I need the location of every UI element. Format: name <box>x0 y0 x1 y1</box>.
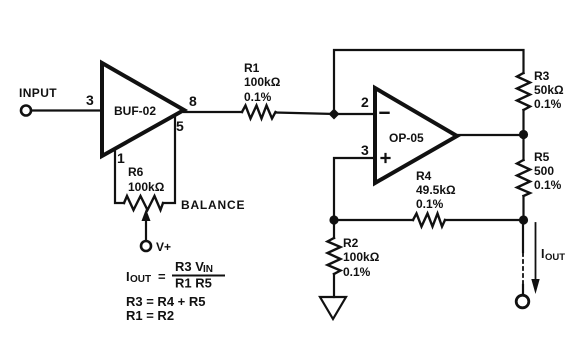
resistor R5 <box>517 150 562 196</box>
svg-text:I: I <box>541 247 544 261</box>
svg-text:0.1%: 0.1% <box>343 265 371 279</box>
svg-text:5: 5 <box>176 118 184 134</box>
BALANCE label <box>181 198 245 212</box>
op-amp U2 OP-05 <box>375 88 457 183</box>
svg-text:0.1%: 0.1% <box>416 197 444 211</box>
wire BUF-02 output to R1 <box>184 111 242 113</box>
svg-text:3: 3 <box>361 142 369 158</box>
wire pin 1 down to R6 left <box>115 150 124 203</box>
wire R4 to node C <box>445 219 524 221</box>
pin 8 label <box>189 93 197 109</box>
wire input to BUF-02 pin 3 <box>32 109 102 111</box>
svg-text:R1: R1 <box>244 61 260 75</box>
pin 3 label <box>361 142 369 158</box>
output terminal <box>516 295 529 308</box>
node A junction <box>329 109 340 120</box>
svg-text:100kΩ: 100kΩ <box>343 250 380 264</box>
wire node A to OP-05 pin 2 <box>334 113 374 115</box>
wire R2 to ground <box>333 274 335 297</box>
svg-text:2: 2 <box>361 94 369 110</box>
Iout current arrow <box>531 223 539 294</box>
wire node C to output terminal <box>522 220 524 295</box>
svg-text:R1 = R2: R1 = R2 <box>126 308 174 323</box>
formula R3 = R4 + R5 <box>126 294 206 309</box>
wire node B to R4 <box>334 219 413 221</box>
node B junction <box>329 215 338 224</box>
input terminal <box>19 86 57 116</box>
svg-text:R5: R5 <box>534 150 550 164</box>
svg-text:INPUT: INPUT <box>19 86 57 100</box>
svg-text:BUF-02: BUF-02 <box>114 104 156 118</box>
node C junction <box>519 215 528 224</box>
svg-text:0.1%: 0.1% <box>534 97 562 111</box>
svg-text:OUT: OUT <box>545 252 565 263</box>
svg-text:R3 V: R3 V <box>175 259 204 274</box>
formula R1 = R2 <box>126 308 174 323</box>
op-amp U1 BUF-02 <box>102 63 184 156</box>
formula Iout = R3 Vin / R1 R5 <box>126 259 224 291</box>
svg-text:100kΩ: 100kΩ <box>244 75 281 89</box>
wire R1 to node A <box>276 113 335 115</box>
svg-text:OUT: OUT <box>130 274 151 285</box>
resistor R6 potentiometer <box>124 165 165 210</box>
svg-text:IN: IN <box>203 264 213 275</box>
resistor R1 <box>242 61 281 119</box>
wire OP-05 pin 3 to node B <box>334 158 374 220</box>
wiper arrow of R6 <box>142 209 151 240</box>
svg-text:R3: R3 <box>534 69 550 83</box>
svg-text:8: 8 <box>189 93 197 109</box>
svg-text:1: 1 <box>117 150 125 166</box>
resistor R3 <box>517 69 564 111</box>
svg-text:V+: V+ <box>156 240 171 254</box>
svg-text:0.1%: 0.1% <box>534 178 562 192</box>
svg-text:R1 R5: R1 R5 <box>175 276 212 291</box>
svg-text:R2: R2 <box>343 236 359 250</box>
svg-text:OP-05: OP-05 <box>389 131 424 145</box>
pin 5 label <box>176 118 184 134</box>
svg-text:100kΩ: 100kΩ <box>128 180 165 194</box>
svg-text:49.5kΩ: 49.5kΩ <box>416 183 456 197</box>
resistor R4 <box>413 169 456 227</box>
V+ terminal <box>141 240 171 254</box>
svg-text:0.1%: 0.1% <box>244 90 272 104</box>
ground <box>320 297 346 319</box>
feedback wire node A up and across to R3 top <box>334 50 524 114</box>
svg-text:=: = <box>158 269 166 284</box>
node D junction <box>519 130 528 139</box>
wire OP-05 output to node D <box>457 134 524 136</box>
pin 1 label <box>117 150 125 166</box>
svg-text:50kΩ: 50kΩ <box>534 83 564 97</box>
wire R3 to node D <box>522 110 524 135</box>
pin 2 label <box>361 94 369 110</box>
svg-text:R4: R4 <box>416 169 432 183</box>
Iout label <box>541 247 565 263</box>
svg-text:R3 = R4 + R5: R3 = R4 + R5 <box>126 294 206 309</box>
wire R5 to node C <box>522 196 524 220</box>
svg-text:500: 500 <box>534 164 554 178</box>
pin 3 label <box>86 92 94 108</box>
svg-text:R6: R6 <box>128 165 144 179</box>
wire pin 5 down to R6 right <box>163 117 175 203</box>
resistor R2 <box>328 220 380 279</box>
wire node D to R5 <box>522 135 524 161</box>
svg-text:3: 3 <box>86 92 94 108</box>
svg-text:BALANCE: BALANCE <box>181 198 245 212</box>
